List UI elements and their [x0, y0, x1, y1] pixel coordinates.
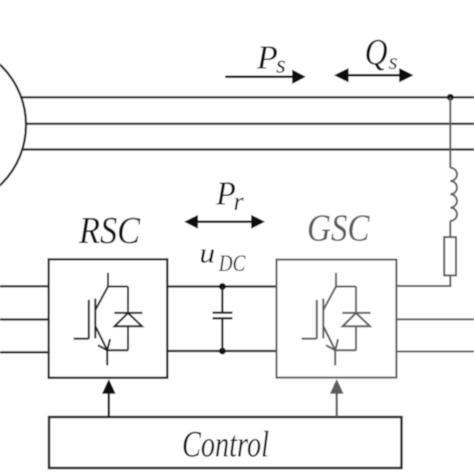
generator G (induction machine, clipped circle)	[0, 42, 26, 208]
converter GSC box	[277, 260, 397, 378]
node DC- capacitor junction	[219, 348, 226, 355]
resistor R (grid filter)	[444, 237, 456, 275]
wire rotor phase 3	[0, 351, 49, 353]
svg-text:RSC: RSC	[78, 210, 140, 252]
svg-text:r: r	[234, 187, 245, 216]
arrow control to RSC (black)	[102, 379, 116, 417]
wire rotor phase 2	[0, 318, 49, 320]
wire DC+ rail	[167, 285, 276, 287]
node DC+ capacitor junction	[219, 283, 226, 290]
arrow control to GSC (grey)	[330, 379, 344, 417]
svg-text:DC: DC	[218, 251, 246, 276]
wire stator phase 1	[20, 96, 474, 98]
svg-text:Control: Control	[182, 424, 269, 465]
wire rotor phase 1	[0, 285, 49, 287]
wire stator phase 3	[20, 148, 474, 150]
wire inductor to resistor	[449, 221, 451, 237]
inductor L (grid filter choke)	[450, 168, 457, 221]
wire GSC output line 3 (grey, to grid edge)	[396, 351, 474, 353]
svg-text:u: u	[199, 239, 215, 270]
diode GSC freewheeling	[335, 287, 370, 351]
wire grid branch vertical (grey)	[449, 97, 451, 167]
svg-text:GSC: GSC	[307, 208, 370, 250]
arrow Q_s (stator reactive power, double headed)	[334, 68, 414, 82]
arrow P_s (stator active power, right)	[225, 70, 305, 84]
diode RSC freewheeling	[107, 287, 142, 351]
node grid junction on top stator line	[447, 94, 454, 101]
wire stator phase 2	[20, 123, 474, 125]
svg-text:s: s	[276, 52, 286, 79]
svg-text:P: P	[256, 40, 278, 77]
svg-text:Q: Q	[365, 33, 388, 74]
wire resistor to GSC	[396, 275, 450, 286]
arrow P_r (rotor power, double headed)	[184, 215, 265, 229]
svg-text:s: s	[389, 49, 398, 74]
converter RSC box	[49, 259, 168, 377]
transistor GSC IGBT	[302, 273, 339, 366]
control block box	[49, 417, 402, 468]
wire DC- rail	[167, 350, 276, 352]
wire GSC output line 2 (grey, to grid edge)	[396, 318, 474, 320]
capacitor C_dc (DC link)	[213, 287, 233, 352]
transistor RSC IGBT	[74, 273, 111, 366]
